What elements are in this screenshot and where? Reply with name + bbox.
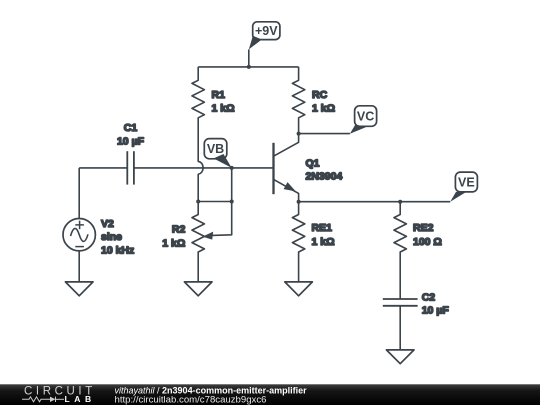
svg-text:R2: R2 — [172, 223, 186, 235]
svg-text:2N3904: 2N3904 — [306, 171, 343, 183]
net flag VC — [350, 106, 377, 134]
svg-text:+9V: +9V — [255, 24, 278, 38]
capacitor C1 — [79, 151, 273, 184]
wire R1 bottom to junction — [197, 174, 199, 202]
wiper wire R2 — [212, 202, 232, 236]
wire emitter rail — [299, 201, 451, 203]
wire hop over base wire — [198, 162, 203, 174]
svg-text:10 kHz: 10 kHz — [101, 244, 134, 256]
wire V2 to ground — [78, 251, 80, 282]
wiper arrow R2 — [203, 232, 214, 240]
logo circuit line — [22, 397, 64, 402]
wire collector to VC — [299, 133, 350, 135]
power flag +9V box — [249, 22, 280, 50]
svg-text:sine: sine — [101, 231, 122, 243]
net flag VE — [450, 172, 477, 202]
svg-text:100 Ω: 100 Ω — [413, 236, 442, 248]
potentiometer R2 — [192, 202, 204, 282]
resistor RE2 — [394, 202, 406, 299]
ground V2 — [65, 282, 93, 296]
node rail junction — [247, 65, 251, 69]
resistor RC — [292, 67, 304, 134]
net flag VB — [204, 139, 231, 168]
svg-text:V2: V2 — [101, 218, 114, 230]
svg-text:RC: RC — [312, 89, 328, 101]
capacitor C2 — [383, 299, 418, 350]
svg-text:VB: VB — [207, 142, 224, 156]
svg-text:1 kΩ: 1 kΩ — [312, 236, 335, 248]
ground C2 — [386, 350, 414, 364]
svg-text:http://circuitlab.com/c78cauzb: http://circuitlab.com/c78cauzb9gxc6 — [115, 394, 267, 405]
wire +9V stub — [248, 49, 250, 67]
ground R2 — [184, 282, 212, 296]
svg-text:VC: VC — [357, 110, 374, 124]
voltage source V2 — [63, 168, 95, 251]
transistor Q1 — [274, 134, 299, 202]
wire VB junction down — [231, 168, 233, 202]
svg-text:Q1: Q1 — [306, 157, 320, 169]
node RE2 branch — [398, 200, 402, 204]
resistor R1 — [192, 67, 204, 162]
resistor RE1 — [292, 202, 304, 282]
node R2 top left — [196, 200, 200, 204]
footer bar — [0, 384, 540, 405]
svg-text:C1: C1 — [124, 122, 138, 134]
svg-text:R1: R1 — [212, 89, 226, 101]
ground RE1 — [285, 282, 313, 296]
svg-text:RE1: RE1 — [312, 222, 333, 234]
svg-text:10 µF: 10 µF — [117, 136, 145, 148]
wire top rail — [198, 66, 298, 68]
wire R2 top link — [198, 201, 232, 203]
node collector — [297, 132, 301, 136]
svg-text:LAB: LAB — [65, 394, 96, 404]
node base junction — [230, 166, 234, 170]
svg-text:1 kΩ: 1 kΩ — [162, 237, 185, 249]
svg-text:1 kΩ: 1 kΩ — [312, 102, 335, 114]
svg-text:RE2: RE2 — [413, 222, 434, 234]
node R2 top right — [230, 200, 234, 204]
svg-text:VE: VE — [458, 176, 475, 190]
svg-text:1 kΩ: 1 kΩ — [212, 102, 235, 114]
node emitter — [297, 200, 301, 204]
svg-text:10 µF: 10 µF — [422, 305, 450, 317]
svg-text:C2: C2 — [422, 291, 436, 303]
